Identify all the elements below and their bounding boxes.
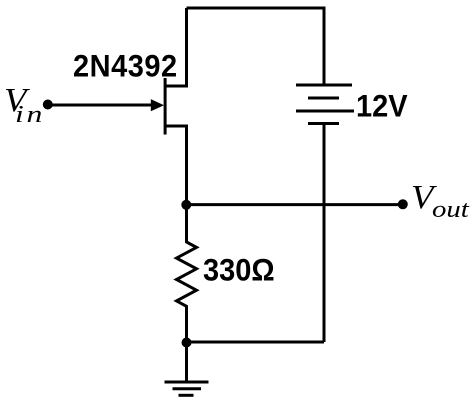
label: resistor value 330&#937;	[203, 253, 275, 289]
label: transistor part number 2N4392	[73, 49, 178, 85]
node Vin terminal dot	[43, 100, 53, 110]
gate arrowhead of JFET	[151, 99, 164, 111]
resistor R1 zigzag body	[177, 205, 197, 342]
label: Vin subscript in	[15, 102, 45, 129]
ground symbol bar 3	[179, 394, 194, 397]
wire: gate input from Vin node	[52, 104, 156, 107]
wire: drain lead up to top rail	[165, 8, 186, 86]
wire: battery negative lead down to ground rail	[323, 125, 326, 342]
battery B1 plate 3 (long, positive)	[296, 110, 354, 113]
wire: Vout rail from source node to output terminal	[187, 203, 401, 206]
node Vout terminal dot	[398, 199, 408, 209]
battery B1 plate 4 (short, negative)	[308, 122, 339, 125]
transistor Q1 2N4392 channel bar	[164, 78, 167, 135]
battery B1 plate 2 (short, negative)	[308, 97, 339, 100]
ground stub wire	[185, 342, 188, 381]
label: Vin input voltage V	[4, 82, 26, 120]
battery B1 plate 1 (long, positive)	[296, 84, 352, 87]
wire: ground rail from resistor bottom to battery negative	[187, 341, 325, 344]
ground symbol bar 1	[165, 381, 209, 384]
node A junction dot (source / resistor / Vout)	[181, 200, 191, 210]
label: battery value 12V	[356, 89, 408, 125]
wire: top rail over to battery positive	[187, 8, 325, 84]
label: Vout subscript out	[432, 197, 469, 224]
label: Vout output voltage V	[411, 179, 433, 217]
node B junction dot (resistor / ground / battery return)	[182, 338, 192, 348]
wire: source lead down to output node	[165, 126, 186, 205]
ground symbol bar 2	[173, 387, 202, 390]
